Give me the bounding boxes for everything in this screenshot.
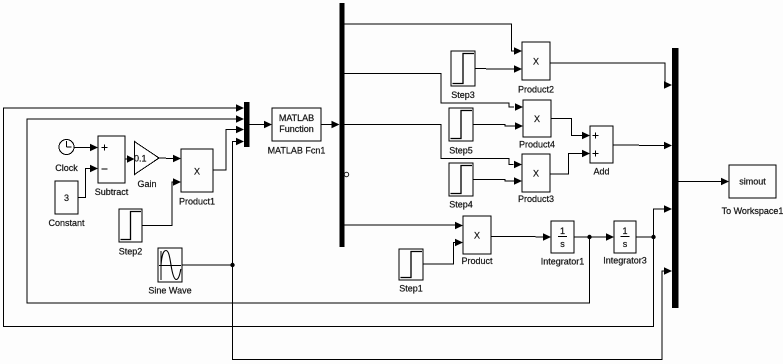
node junction Integrator1 output [587,235,591,239]
wire Demux out3 to Product3 in1 [345,125,523,169]
wire inner feedback loop (Integrator1 out to Mux1 in2) [27,115,590,303]
demux Demux [340,3,345,247]
node junction Sine Wave output [230,263,234,267]
svg-text:3: 3 [64,193,69,203]
svg-text:Sine Wave: Sine Wave [148,286,191,296]
svg-text:Add: Add [593,167,609,177]
wire Step5 to Product4 in2 [473,122,523,130]
svg-text:Product1: Product1 [179,197,215,207]
block Product4 [519,100,555,150]
node junction Integrator3 output [651,235,655,239]
block Integrator3 [603,221,647,266]
wire Clock to Subtract plus [74,144,98,152]
wire Integrator1 out to Integrator3 [574,233,614,241]
svg-text:simout: simout [739,177,766,187]
wire MATLAB Fcn1 out to Demux [321,121,340,129]
block Product3 [518,154,554,204]
wire Subtract to Gain [125,155,135,163]
wire Product out to Integrator1 [491,233,551,241]
block Add [590,126,613,177]
svg-text:Product2: Product2 [518,85,554,95]
wire right Mux out to To Workspace1 [679,178,730,186]
block Step3 [451,51,475,100]
block Product1 [179,149,215,207]
block Product2 [518,42,554,95]
wire Integrator3 out to junction [636,236,654,238]
wire Demux out5 to Product in1 [345,222,464,230]
wire Demux out2 to Product4 in1 [345,74,524,111]
svg-text:X: X [194,167,200,177]
wire Product2 out to right Mux in1 [550,63,672,89]
wire Mux1 out to MATLAB Fcn1 [250,121,273,129]
wire Add out to right Mux in2 [613,142,672,150]
block Subtract [95,136,129,197]
node unconnected Demux out4 port [344,172,348,176]
svg-text:Integrator3: Integrator3 [603,256,647,266]
svg-text:1: 1 [622,226,627,236]
mux Mux1 [244,102,250,147]
svg-text:X: X [533,169,539,179]
svg-text:Product3: Product3 [518,194,554,204]
wire Sine Wave bottom loop to right Mux in4 [233,265,673,360]
svg-text:X: X [534,114,540,124]
block Constant [48,181,85,228]
wire Step1 to Product in2 [423,239,463,264]
svg-text:0.1: 0.1 [134,154,147,164]
wire Demux out1 to Product2 in1 [345,24,523,55]
block MATLAB Fcn1 [268,108,326,156]
svg-text:Integrator1: Integrator1 [541,257,585,267]
wire Step2 to Product1 in2 [142,178,181,225]
svg-text:To Workspace1: To Workspace1 [722,206,783,216]
svg-text:Step4: Step4 [449,200,473,210]
svg-text:Product: Product [461,256,493,266]
block Gain [134,142,159,190]
svg-text:Step1: Step1 [399,284,423,294]
wire Product1 out to Mux1 in3 [213,126,244,170]
svg-text:Product4: Product4 [519,140,555,150]
block Integrator1 [541,221,585,267]
mux right Mux2 [672,48,679,308]
svg-text:MATLAB: MATLAB [279,113,314,123]
block Clock [55,140,78,174]
wire Integrator3 out up to right Mux in3 [654,205,673,237]
svg-text:Step2: Step2 [119,247,143,257]
wire Step4 to Product3 in2 [473,177,522,185]
svg-text:Step5: Step5 [449,146,473,156]
block Step1 [399,249,423,294]
svg-text:MATLAB Fcn1: MATLAB Fcn1 [268,146,326,156]
block Sine Wave [148,248,191,296]
svg-text:s: s [560,239,565,249]
svg-text:Gain: Gain [137,179,156,189]
block To Workspace1 [722,165,783,216]
block Product [461,216,493,266]
block Step4 [449,163,473,210]
svg-text:Function: Function [279,124,314,134]
svg-text:Step3: Step3 [451,90,475,100]
block Step5 [449,108,473,156]
wire Product3 out to Add in2 [550,150,590,174]
wire Constant to Subtract minus [78,165,98,198]
wire Gain to Product1 in1 [159,155,181,163]
wire Sine Wave up to Mux1 in4 [182,138,244,265]
svg-text:s: s [623,239,628,249]
block Step2 [119,209,143,257]
svg-text:Constant: Constant [48,218,85,228]
svg-text:X: X [474,231,480,241]
svg-text:X: X [533,57,539,67]
wire Product4 out to Add in1 [551,119,590,140]
wire Step3 to Product2 in2 [475,65,522,73]
svg-text:1: 1 [560,226,565,236]
wire outer feedback loop (Integrator3 out to Mux1 in1) [4,104,654,326]
svg-text:Subtract: Subtract [95,187,129,197]
svg-text:Clock: Clock [55,163,78,173]
